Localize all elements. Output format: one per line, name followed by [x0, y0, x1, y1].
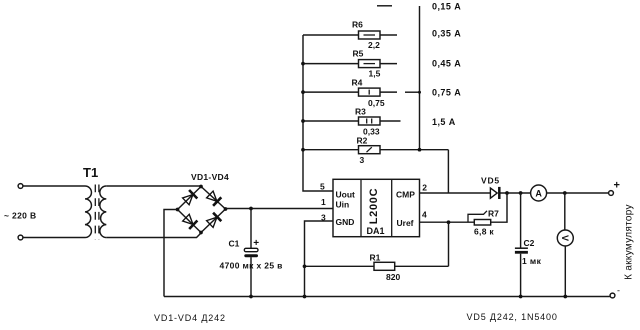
svg-text:L200C: L200C [368, 188, 380, 225]
svg-text:1 мк: 1 мк [522, 256, 542, 266]
node C1 bottom [249, 295, 253, 299]
input terminal bottom [18, 235, 23, 240]
wire secondary bottom to bridge [106, 233, 201, 238]
svg-text:R2: R2 [357, 136, 368, 146]
diode VD4 (bottom-right) [206, 213, 222, 229]
wire primary bottom [23, 237, 85, 239]
switch contact 0.15A [377, 5, 392, 7]
svg-text:A: A [535, 188, 542, 198]
diode VD1 (top-left) [182, 190, 198, 206]
svg-text:Uin: Uin [336, 200, 350, 210]
svg-text:CMP: CMP [396, 190, 415, 200]
svg-text:0,35 А: 0,35 А [432, 29, 461, 39]
svg-text:V: V [560, 235, 570, 241]
svg-text:3: 3 [360, 155, 365, 165]
svg-text:VD1-VD4: VD1-VD4 [191, 172, 229, 182]
svg-text:T1: T1 [83, 165, 98, 180]
svg-text:4: 4 [422, 210, 427, 220]
svg-text:R3: R3 [355, 107, 366, 117]
svg-text:R4: R4 [352, 78, 363, 88]
svg-text:820: 820 [386, 272, 400, 282]
diode bridge VD1-VD4 diamond [178, 187, 226, 233]
capacitor C1 [250, 209, 252, 249]
node switch R2 [418, 148, 422, 152]
node voltmeter top [563, 191, 567, 195]
svg-text:C2: C2 [524, 238, 535, 248]
node bus R3 [301, 119, 305, 123]
node GND R1 [303, 264, 307, 268]
ammeter A [531, 185, 547, 201]
svg-text:-: - [617, 286, 621, 296]
wire voltmeter to rail [564, 246, 566, 297]
svg-text:1: 1 [321, 197, 326, 207]
node C2 top [519, 191, 523, 195]
svg-text:+: + [253, 238, 259, 249]
node GND rail [303, 295, 307, 299]
svg-text:1,5 А: 1,5 А [432, 117, 456, 127]
diode VD2 (top-right) [206, 190, 222, 206]
wire CMP to VD5 [420, 192, 491, 194]
svg-text:C1: C1 [229, 239, 240, 249]
svg-text:R6: R6 [352, 20, 363, 30]
node bridge top [199, 185, 203, 189]
output terminal minus [610, 293, 615, 298]
wire R7 right up [491, 193, 507, 222]
node bridge right [224, 207, 228, 211]
svg-text:4700 мк x 25 в: 4700 мк x 25 в [220, 261, 283, 271]
svg-text:2: 2 [422, 183, 427, 193]
wire bridge minus to bottom rail [164, 210, 178, 297]
resistor R1 [305, 265, 449, 267]
svg-text:DA1: DA1 [367, 226, 385, 236]
voltmeter V [557, 230, 573, 246]
wire VD5 to ammeter [501, 192, 532, 194]
svg-text:VD1-VD4 Д242: VD1-VD4 Д242 [154, 313, 226, 323]
wire R2 row down to CMP [447, 150, 449, 193]
svg-text:Uout: Uout [336, 190, 356, 200]
node C2 bottom [519, 295, 523, 299]
node bridge left [176, 208, 180, 212]
input terminal top [18, 184, 23, 189]
capacitor C2 [520, 193, 522, 248]
node voltmeter bottom [563, 295, 567, 299]
wire bridge plus to Uin [226, 208, 334, 211]
svg-text:~ 220 В: ~ 220 В [4, 211, 36, 221]
resistor R5 [303, 63, 397, 65]
node bus R2 [301, 148, 305, 152]
svg-text:1,5: 1,5 [369, 68, 381, 78]
transformer T1 secondary winding [100, 186, 106, 238]
wire bottom rail [164, 296, 610, 298]
svg-text:R5: R5 [353, 49, 364, 59]
node C1 top [249, 207, 253, 211]
transformer core [95, 185, 99, 240]
wire pin5 to ladder bus [303, 35, 333, 191]
svg-text:VD5: VD5 [481, 176, 500, 186]
svg-text:0,75: 0,75 [368, 98, 385, 108]
wire pin4 Uref [420, 221, 475, 223]
node wiper contact [418, 91, 421, 94]
node bus R4 [301, 90, 305, 94]
wire primary top [23, 185, 85, 187]
node bus R5 [301, 62, 305, 66]
diode VD3 (bottom-left) [182, 213, 198, 229]
svg-text:GND: GND [336, 217, 355, 227]
svg-text:Uref: Uref [397, 218, 414, 228]
resistor R2 [303, 149, 448, 151]
svg-text:R7: R7 [488, 209, 499, 219]
svg-text:VD5 Д242, 1N5400: VD5 Д242, 1N5400 [467, 312, 558, 322]
switch wiper at 0.75A [405, 91, 420, 93]
svg-text:К аккумулятору: К аккумулятору [624, 204, 635, 280]
resistor R7 (variable) [474, 220, 490, 226]
node bridge bottom [199, 231, 203, 235]
op-amp/regulator DA1 L200C box [333, 179, 420, 236]
switch common line [419, 6, 421, 150]
svg-text:R1: R1 [370, 252, 381, 262]
svg-text:0,15 А: 0,15 А [432, 2, 461, 12]
wire to voltmeter [564, 193, 566, 230]
wire secondary top to bridge [106, 185, 201, 187]
transformer T1 primary winding [85, 186, 91, 238]
svg-text:2,2: 2,2 [368, 40, 380, 50]
node R7 top [505, 191, 509, 195]
resistor R4 [303, 91, 397, 93]
svg-text:6,8 к: 6,8 к [474, 227, 494, 237]
node Uref R1 [447, 220, 451, 224]
svg-text:5: 5 [320, 182, 325, 192]
svg-text:+: + [614, 180, 620, 192]
resistor R3 [303, 120, 401, 122]
output terminal plus [609, 191, 614, 196]
wire Uref down to R1 [448, 222, 450, 266]
svg-text:0,75 А: 0,75 А [432, 88, 461, 98]
resistor R6 [303, 34, 397, 36]
svg-text:0,45 А: 0,45 А [432, 59, 461, 69]
wire ammeter to plus [547, 192, 609, 194]
wire pin3 GND down [305, 221, 334, 297]
